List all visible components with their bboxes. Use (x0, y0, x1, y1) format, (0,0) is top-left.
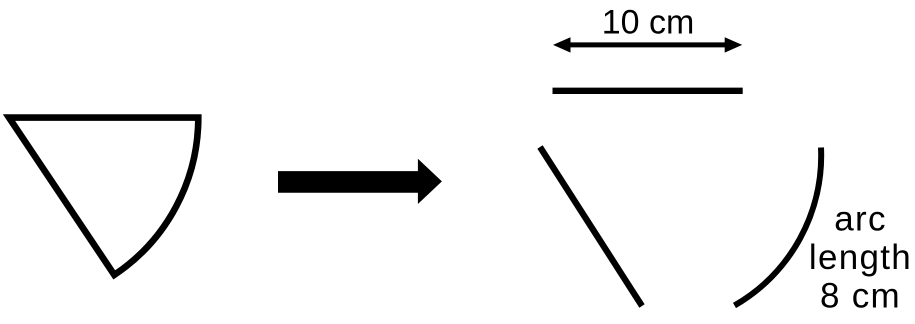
radius line (diagonal piece) (540, 147, 642, 306)
dimension arrow (double-headed, 10 cm) (553, 37, 742, 52)
block arrow (transform arrow, centre) (278, 159, 442, 204)
svg-text:length: length (809, 238, 912, 277)
radius line (horizontal, 10 cm piece) (553, 88, 743, 94)
sector (quarter-pie shape, left) (9, 118, 198, 275)
label arc length 8 cm (809, 200, 912, 316)
svg-text:8 cm: 8 cm (820, 277, 901, 316)
svg-text:10 cm: 10 cm (602, 3, 695, 41)
arc (8 cm piece) (735, 148, 822, 306)
svg-text:arc: arc (834, 200, 887, 239)
